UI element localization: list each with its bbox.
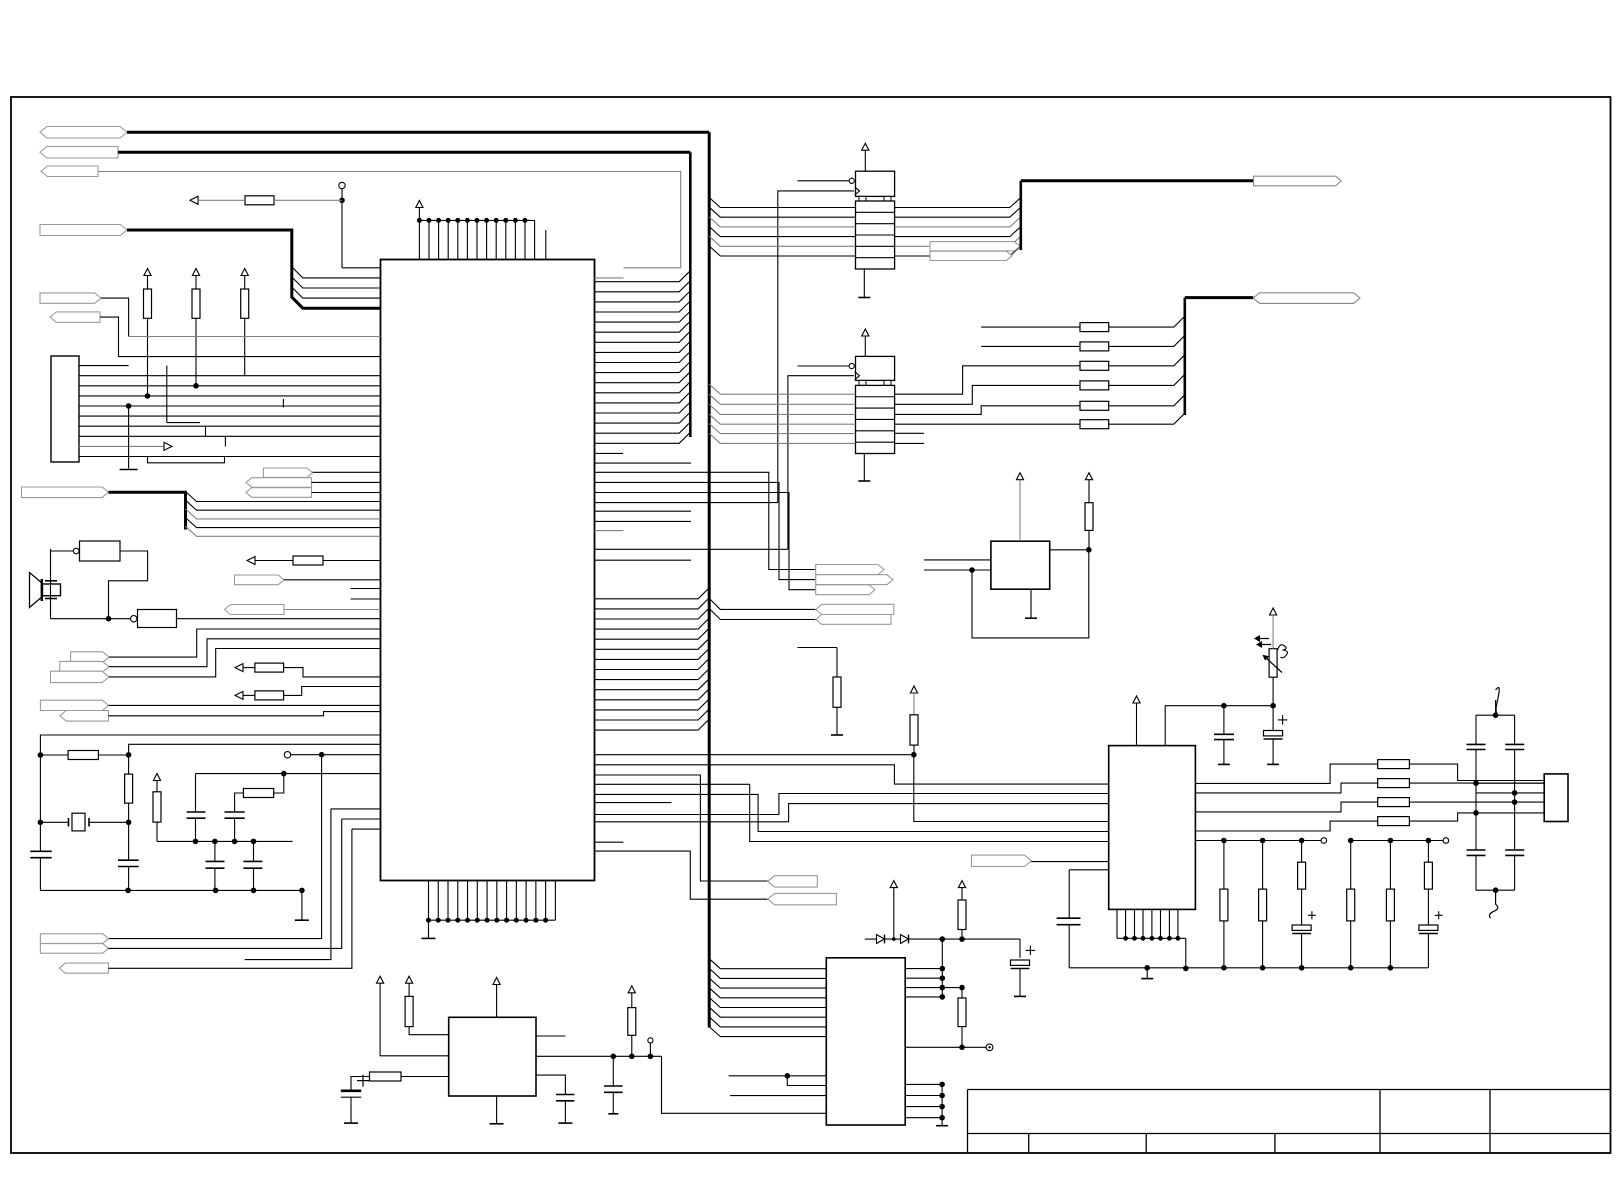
VCC sense rail (196, 773, 381, 775)
net flag R1 (1254, 176, 1342, 186)
wire Rh3 to U1 (284, 668, 381, 677)
junction dot U4 rail a (1221, 703, 1227, 709)
J1 pin 2 wire (79, 375, 381, 377)
U1 right stub 511 (595, 510, 692, 512)
U8 input rows from bus B1 gray (709, 384, 855, 394)
wire box LS1 left (51, 550, 74, 552)
crystal Y1 (72, 813, 85, 831)
wire LS1 top (50, 549, 52, 619)
resistor col stub row1 (981, 326, 1080, 328)
capacitor C3 (187, 811, 206, 813)
wire flag L6 to U1 (100, 317, 381, 357)
vertical bus B2 (689, 152, 692, 437)
wire flag L9 to U1 (312, 481, 381, 483)
net flag D gray (40, 700, 108, 710)
wire flag A to U1 (109, 629, 381, 657)
bus wire thick flag L7 (109, 492, 186, 529)
power flag VCC R10 (1085, 473, 1092, 480)
decoupling rail (157, 840, 293, 842)
junction dots decoupling rail (193, 839, 199, 845)
capacitor C2 (118, 859, 139, 861)
net flag L11 (235, 575, 285, 585)
wire pad to junction (341, 189, 343, 268)
U5 left stub 1095 (730, 1095, 826, 1097)
power flag VCC R7 (406, 976, 413, 983)
wire flag L10 to U1 (312, 492, 381, 494)
U1 right stub row 453 (595, 452, 624, 454)
arrow net Rh4 (235, 691, 243, 699)
U1 left row 809 stub (331, 808, 381, 810)
wire Rh5 to rail (274, 774, 284, 793)
resistor Rh2 (293, 556, 323, 565)
resistor R7 (405, 996, 413, 1026)
wire R4 right (98, 754, 128, 756)
net flag H3 (59, 963, 108, 973)
bus wire thick from flag TL2 to vertical bus B2 (118, 151, 690, 154)
bus B1 bottom fan to U5 (709, 959, 826, 969)
trimmer squiggle marks (1256, 639, 1271, 645)
wire C7 to R8 (351, 1077, 370, 1091)
box LS1 driver (80, 541, 121, 561)
wire flag D to U1 (109, 704, 381, 706)
net flag E gray (60, 711, 109, 722)
wire RQ2 to connector (1409, 782, 1476, 784)
U1 right stub 842 (595, 841, 624, 843)
power flag VCC long input (377, 976, 384, 983)
U8 output row1 jog (895, 366, 1080, 394)
arrow net Rh2 (247, 557, 255, 565)
net flag L10 (246, 488, 312, 498)
title block row2 divider d (1379, 1134, 1381, 1154)
resistor R8 (370, 1072, 402, 1081)
wire U1 to flag F2 (595, 482, 816, 579)
wire RV1 to rail (1272, 677, 1274, 706)
junction dot U3 in2 (969, 567, 975, 573)
resistor Rh1 (245, 196, 274, 205)
bus wire thick B5 to flag R2 (1185, 296, 1253, 299)
wire flag L8 to U1 (313, 471, 381, 473)
resistor RQ3 (1378, 798, 1410, 807)
junction dot rail a (940, 936, 946, 942)
U5 right lower pins to gnd (905, 1083, 942, 1085)
capacitor CQ1b (1467, 849, 1486, 851)
wire flag H2 via vertical (109, 819, 342, 948)
junction dot rail b (959, 936, 965, 942)
U8 output stub5 (895, 432, 925, 434)
U5 right row 1047 (905, 1046, 987, 1048)
U7 clock input wire (778, 191, 854, 503)
wire R8 to U2 (401, 1076, 449, 1078)
junction dot A (339, 198, 345, 204)
wire box LS1 right path (109, 551, 148, 619)
resistor R14 (1262, 841, 1264, 890)
capacitor C9 (612, 1056, 614, 1086)
wire U8 clock to U1 row (595, 548, 788, 550)
net flag F6 gray (768, 876, 818, 887)
resistor R4 feedback (68, 751, 98, 760)
U8 clock input wire (788, 376, 854, 550)
U1 right stub 530 gray (595, 530, 624, 532)
net flag TL1 (40, 127, 127, 139)
U7 enable bubble input (849, 178, 854, 183)
net flag F7 (768, 893, 837, 904)
wire U3 out to junction (1050, 549, 1089, 551)
diode D2 (901, 935, 909, 944)
ground symbol osc rail (301, 890, 303, 920)
bus wire thick B4 to flag R1 (1021, 179, 1254, 182)
vertical bus B1 (708, 132, 711, 1027)
wire flag H3 via vertical (109, 829, 352, 968)
U7 input rows from bus B1 (709, 198, 855, 208)
junction dot ant (1493, 712, 1499, 718)
J1 pin 5 wire (79, 405, 381, 407)
bus wire thick from flag TL1 to vertical bus B1 (127, 131, 709, 134)
net flag F2 (816, 575, 893, 585)
wire U2 right to cap C8 (536, 1075, 565, 1094)
power flag VCC RQ5 (958, 881, 965, 888)
resistor R12 (910, 715, 918, 745)
wire osc second rail to U1 (129, 744, 381, 755)
wire row754 U1 to junction (595, 754, 914, 756)
terminal circled dot (986, 1044, 993, 1051)
junction dot q2 on crystal v1 (1473, 780, 1479, 786)
wire row824 to U4 (595, 804, 1109, 822)
net flag mid-wire M2 (930, 251, 1012, 260)
wire J1 area jog (148, 457, 225, 463)
resistor R18 with elco C14 (1427, 841, 1429, 863)
U1 right rows into bus B1 (595, 588, 710, 599)
U8 output row4 (895, 423, 1080, 425)
U3 input wire 2 (924, 569, 991, 571)
J1 pin 7 wire (79, 425, 381, 427)
U8 interconnect tabs (859, 380, 866, 385)
vertical bus B4 (1019, 181, 1022, 250)
wire row851 to flag F7 (595, 851, 768, 899)
net flag B (60, 661, 109, 672)
arrow net left of Rh1 (190, 196, 198, 204)
feedback loop wire U3 (972, 550, 1089, 638)
wire R3 lower (244, 318, 246, 375)
crystal cap top rail (1476, 714, 1515, 716)
title block row2 divider b (1145, 1134, 1147, 1154)
junction dot crystal right (126, 820, 132, 826)
net flag F4 (816, 604, 894, 614)
power flag VCC above resistor R2 (192, 269, 199, 276)
ground pigtail squiggle (1489, 890, 1497, 918)
vertical bus B5 (1184, 298, 1187, 415)
wire row775 to flag F6 (595, 775, 768, 881)
power flag VCC U7 (862, 143, 869, 150)
ground symbol below U7 (863, 269, 865, 298)
power flag VCC above resistor R3 (241, 269, 248, 276)
power flag VCC above resistor R1 (144, 269, 151, 276)
wire RQ4 to connector (1409, 813, 1544, 821)
wire U4 pin q3 (1195, 802, 1377, 812)
open terminal pad C (648, 1038, 653, 1043)
wire osc top rail to U1 (40, 735, 380, 755)
resistor RQ1 (1378, 760, 1410, 769)
wire LS bottom rail (51, 618, 134, 620)
bus entries from L7 bus to U1 (186, 492, 381, 502)
net flag G (972, 855, 1032, 866)
wire flag G to U4 (1031, 861, 1108, 863)
resistor Rh4 (255, 691, 284, 700)
IC U7 stack body (856, 201, 895, 269)
ground symbol main rail (1144, 965, 1150, 971)
IC U4 body (1109, 746, 1196, 910)
net flag L9 (246, 478, 312, 488)
U7 output rows into bus B4 (895, 198, 1021, 208)
capacitor C10 net (1069, 869, 1109, 871)
junction dots on ground rail (125, 888, 131, 894)
connector J2 body (1544, 774, 1568, 822)
resistor R1 (144, 289, 152, 318)
U2 right stub (536, 1035, 565, 1037)
net flag L6 (50, 312, 100, 322)
U8 output row2 jog (895, 385, 1080, 404)
U1 top free pin (545, 230, 547, 260)
junction dot osc b (126, 752, 132, 758)
power flag VCC D (890, 881, 897, 888)
title block row2 divider a (1028, 1134, 1030, 1154)
net flag L8 (264, 468, 313, 477)
wire junction row754 to U4 (914, 755, 1109, 822)
U1 bottom pin rail with junction dots (429, 919, 556, 921)
resistor R10 (1085, 503, 1093, 531)
title block divider v2 (1489, 1090, 1491, 1154)
U8 output row3 jog (895, 406, 1080, 415)
capacitor C8 (556, 1094, 575, 1096)
bus B1 branch to flag F5 (709, 609, 816, 620)
wire flag C to U1 (109, 649, 381, 677)
IC U2 body (449, 1017, 536, 1096)
elco C12 (1272, 706, 1274, 731)
resistor column RN1-RN6 (1080, 323, 1109, 332)
power flag VCC U8 (862, 329, 869, 336)
U4 top rail (1165, 706, 1273, 746)
J1 pin 1 wire (79, 365, 129, 367)
wire U4 pin q1 (1195, 764, 1377, 783)
IC U8 control box (856, 356, 895, 380)
wire pad B to junction (291, 754, 322, 756)
net flag TL2 (40, 147, 118, 159)
wire U4 pin q4 (1195, 821, 1377, 831)
bus entries from L4 bus to U1 (292, 267, 381, 278)
ground symbol below U3 (1030, 589, 1032, 618)
U5 right pin wires (905, 968, 942, 970)
wire R2 lower (195, 318, 197, 386)
junction dot B (319, 752, 325, 758)
junction dot LS bottom (106, 616, 112, 622)
U5 right pins to rail vertical (941, 939, 943, 997)
resistor R3 (241, 289, 249, 318)
ground symbol below U1 bottom rail (428, 920, 430, 938)
wire flag L11 to U1 (284, 579, 381, 581)
resistor R19 (958, 900, 966, 930)
U1 left stub a (351, 588, 381, 590)
wire U1 to flag F1 (595, 472, 816, 569)
U4 right rail group2 (1351, 840, 1443, 842)
wire U4 pin q2 (1195, 783, 1377, 793)
resistor Rh5 (243, 789, 273, 798)
net flag mid-wire M1 (930, 242, 1020, 251)
junction dot osc a (38, 752, 44, 758)
main ground rail (1069, 967, 1428, 969)
wire RQ1 to connector (1409, 764, 1544, 780)
U4 bottom pin rail (1117, 937, 1186, 939)
wire U1 to flag F3 (595, 493, 816, 590)
junction dot crystal left (38, 820, 44, 826)
elco C7 (341, 1090, 361, 1093)
title block outline (968, 1089, 1611, 1091)
U1 left row 829 stub (352, 828, 381, 830)
power flag VCC U4 (1133, 696, 1140, 703)
J1 pin 3 wire (79, 385, 381, 387)
U1 top pin rail with junction dots (419, 219, 534, 221)
wire row794 to U4 (595, 794, 1109, 831)
crystal cap vertical 1 (1475, 715, 1477, 744)
wire flag L12 to U1 gray (284, 609, 381, 611)
junction dot q on crystal v2 (1512, 790, 1518, 796)
arrow net Rh3 (235, 664, 243, 672)
ground symbol below C7 (344, 1122, 358, 1124)
IC U8 stack body (856, 385, 895, 453)
wire row814 to U4 (595, 794, 1109, 815)
U1 right long stub 463 (595, 462, 692, 464)
power flag VCC U1 top (416, 201, 423, 208)
net flag C (51, 671, 110, 682)
wire Rh1 to junction A (274, 199, 342, 201)
power flag VCC RV1 (1270, 608, 1277, 615)
wire U7 clock to U1 row (595, 502, 778, 504)
resistor RQ2 (1378, 779, 1410, 788)
resistor column rows into bus B5 (1109, 316, 1185, 327)
net flag A (71, 652, 109, 663)
wire junction B down to flag H1 (109, 755, 322, 939)
U1 right stub 521 (595, 520, 692, 522)
J1 pin 9 wire with arrow (79, 445, 164, 447)
capacitor C1 (30, 850, 51, 852)
U8 output stub6 (895, 442, 925, 444)
ground symbol below J1 net (128, 406, 130, 469)
resistor R13 (1223, 841, 1225, 890)
power flag VCC U2 top (493, 978, 500, 985)
tick terminal on row (282, 399, 284, 408)
MCU U1 body (381, 260, 595, 881)
U4 right rail group1 (1195, 840, 1320, 842)
wire R7 to U2 (409, 1027, 449, 1035)
wire flag E to U1 (109, 712, 381, 716)
U8 stack cell dividers (856, 396, 895, 398)
net flag L7 (22, 487, 109, 498)
capacitor C5 (206, 860, 225, 862)
trimmer RV1 (1269, 649, 1277, 678)
gray net from flag TL3 to U1 pin row (98, 172, 681, 268)
wire row784 to U4 (595, 784, 1109, 841)
floating net with resistor R11 (798, 647, 838, 649)
U5 left jog row (729, 1075, 827, 1077)
IC U7 control box (856, 171, 895, 196)
wire U4 pin rail to gnd rail (1185, 938, 1187, 968)
J1 pin 8 wire (79, 435, 381, 437)
junction dots on U2 output (611, 1054, 617, 1060)
capacitor C6 (243, 860, 262, 862)
net flag L4 (40, 225, 127, 236)
speaker LS1 (30, 573, 44, 608)
wire U2 output to U5 (662, 1056, 827, 1113)
junction dot U4 rail b (1270, 703, 1276, 709)
U1 right stub 802 (595, 802, 672, 804)
wire q2 tail (1476, 782, 1544, 784)
open terminal pad (339, 182, 345, 188)
antenna stub symbol (1496, 688, 1500, 714)
net flag F5 (816, 615, 891, 625)
wire row764 to U4 (595, 765, 1109, 784)
junction dot U3 out (1086, 547, 1092, 553)
wire cap stems to rail (214, 841, 216, 861)
wire crystal left vertical (39, 755, 41, 851)
wire Rh4 to U1 (284, 687, 381, 696)
resistor Rh3 (255, 663, 284, 672)
net flag L5 (40, 293, 101, 303)
U1 left row 819 stub (342, 818, 381, 820)
net flag H1 (40, 934, 108, 944)
power flag VCC R9 (628, 986, 635, 993)
power flag VCC R12 (910, 686, 917, 693)
resistor R15 with elco C13 (1301, 841, 1303, 863)
resistor col stub row2 (981, 345, 1080, 347)
open terminal pad B (284, 752, 290, 758)
wire flag B to U1 (109, 639, 381, 667)
net flag F1 (816, 565, 884, 575)
IC U5 body (826, 958, 905, 1125)
net flag H2 (40, 944, 108, 954)
wire flag L5 to U1 (gray) (101, 298, 129, 336)
diode D1 (877, 935, 885, 944)
bus B1 branch to flag F4 (709, 598, 816, 609)
resistor R2 (192, 289, 200, 318)
capacitor C11 (1223, 706, 1225, 735)
U1 right rows into bus B2 (595, 271, 691, 282)
U1 right stub row1 gray (595, 277, 624, 279)
crystal cap vertical 2 (1514, 715, 1516, 744)
crystal bottom join (1476, 889, 1515, 891)
resistor R17 (1389, 841, 1391, 890)
ground symbol below U2 (496, 1096, 498, 1124)
resistor R9 (628, 1008, 636, 1036)
ground symbol below U8 (863, 454, 865, 482)
wire U6 to U1 (177, 618, 381, 620)
resistor R20 (961, 988, 963, 998)
resistor R5 series (125, 774, 133, 803)
net flag R2 (1253, 293, 1360, 304)
wire Rh2 to U1 (323, 560, 381, 562)
stub wire near H flags (245, 809, 331, 960)
title block divider v1 (1379, 1090, 1381, 1134)
junction dot row754 (911, 752, 917, 758)
net flag L12 gray (225, 605, 285, 615)
elco C15 (1019, 939, 1021, 958)
U1 left stub b (351, 598, 381, 600)
diode rail (865, 938, 1020, 940)
net flag TL3 gray (41, 166, 98, 177)
resistor RQ4 (1378, 817, 1410, 826)
wire U2 output net (536, 1055, 662, 1057)
connector J1 body (51, 356, 79, 462)
wire junction B to U1 (322, 754, 381, 756)
osc ground rail (40, 889, 302, 891)
box U6 with bubble (131, 616, 137, 622)
